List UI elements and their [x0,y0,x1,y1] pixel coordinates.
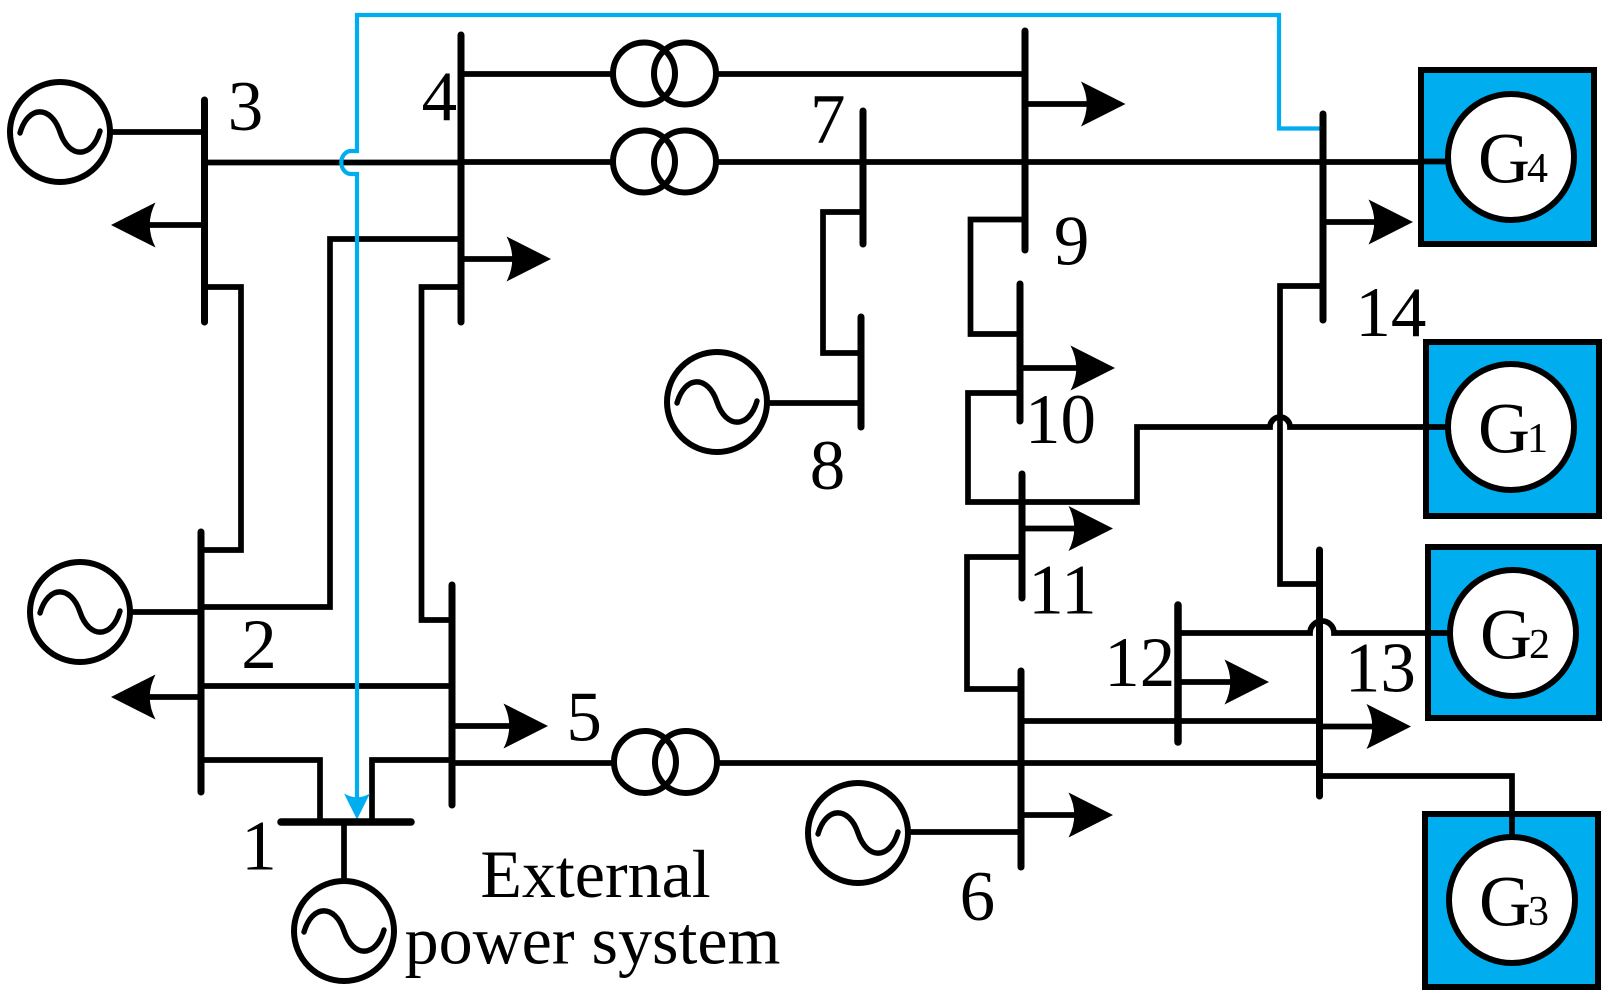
wire: link 10-11 and line bus 11 to G1 with hop over 14-13 link [968,393,1447,502]
generator at bus 2 [30,562,130,662]
svg-text:11: 11 [1028,552,1096,630]
wire: bus 13 to G3 [1320,776,1513,840]
wire: load arrow line bus 14 [1323,219,1407,225]
svg-text:power system: power system [405,903,781,979]
wire: line 6-12-13 [1021,718,1316,724]
bus 2 [198,532,205,792]
bus 7 [860,111,867,244]
svg-text:4: 4 [1527,146,1548,192]
wire stub into G4 [1419,159,1452,165]
wire: load arrow line bus 12 [1178,679,1263,685]
svg-text:8: 8 [810,427,846,505]
wire: generator to bus 6 [909,829,1021,835]
wire: load arrow line bus 13 [1320,724,1406,730]
svg-text:G: G [1480,595,1532,675]
wire: bus 4 to transformer (second) [461,159,616,165]
load arrow bus 5 [504,704,549,749]
bus 4 [458,35,465,322]
wire: line 3-2 [201,287,241,550]
wire: line 12 to G2 with hop over bus 13 [1178,621,1449,633]
load arrow bus 3 [111,203,156,248]
wire stub into G2 [1426,630,1454,636]
svg-text:G: G [1479,862,1531,942]
svg-text:5: 5 [566,679,602,757]
bus 6 [1018,671,1025,867]
wire: line 2-1 [201,760,320,822]
wire: load arrow line bus 11 [1022,526,1107,532]
load arrow bus 9 [1081,82,1126,127]
wire: link 9-10 [971,220,1026,335]
load arrow bus 4 [507,237,552,282]
wire: load arrow line bus 6 [1021,812,1107,818]
wire: line 5-1 [372,760,452,822]
svg-text:6: 6 [960,858,996,936]
wire: bus 1 to generator [341,822,347,880]
svg-text:1: 1 [1527,416,1548,462]
wire: transformer to G4 through buses 7 9 14 [713,159,1448,165]
svg-text:13: 13 [1345,630,1416,708]
bus 13 [1316,550,1323,796]
bus 5 [449,585,456,805]
transformer 5-6 [614,731,717,793]
generator at bus 3 [10,82,110,182]
load arrow bus 2 [111,675,156,720]
svg-text:12: 12 [1104,624,1175,702]
wire stub into G3 [1509,812,1515,841]
wire: load arrow line bus 4 [461,256,545,262]
wire: link 11-6 [967,557,1022,689]
transformer 4-7 [613,131,716,193]
svg-text:G: G [1478,389,1530,469]
wire: link 7-8 [823,212,863,353]
wire: line 4-5 [422,287,462,620]
bus 8 [858,317,865,427]
generator at bus 1 [294,881,394,981]
generator at bus 8 [667,352,767,452]
svg-text:3: 3 [1528,889,1549,935]
transformer 4-9 [613,43,716,105]
svg-text:14: 14 [1355,274,1426,352]
bus 14 [1320,114,1327,320]
wire: load arrow line bus 3 [117,222,205,228]
blue arrowhead into bus 1 [344,794,370,820]
wire: generator to bus 2 [80,609,201,615]
bus 3 [201,100,208,322]
svg-text:9: 9 [1054,203,1090,281]
load arrow bus 12 [1225,660,1270,705]
bus 11 [1019,474,1026,598]
wire: bus 5 to transformer 5-6 [452,760,614,766]
load arrow bus 6 [1069,793,1114,838]
bus 12 [1174,605,1182,742]
wire: generator to bus 3 [58,129,205,135]
svg-text:1: 1 [241,808,277,886]
load arrow bus 11 [1069,506,1114,551]
wire: transformer 4-9 to bus 9 [713,71,1025,77]
wire: load arrow line bus 9 [1025,101,1119,107]
svg-text:10: 10 [1025,381,1096,459]
load arrow bus 10 [1071,346,1116,391]
wire: bus 4 to transformer 4-9 [461,71,616,77]
wire: load arrow line bus 10 [1020,365,1109,371]
wire: link 14-13 [1280,286,1323,584]
svg-text:4: 4 [422,58,458,136]
svg-text:3: 3 [228,68,263,146]
bus 10 [1017,284,1024,421]
svg-text:G: G [1478,119,1530,199]
svg-text:2: 2 [241,606,276,684]
G1 generator box [1424,342,1599,516]
generator at bus 6 [808,783,908,883]
wire: load arrow line bus 2 [117,694,201,700]
svg-text:External: External [480,836,710,912]
svg-text:2: 2 [1529,622,1550,668]
bus 9 [1022,31,1029,250]
wire: generator to bus 8 [769,400,861,406]
wire: blue HVDC link from bus 14 to bus 1 with hop over line 3-4 [341,15,1320,806]
load arrow bus 14 [1369,200,1414,245]
G4 generator box [1419,70,1594,244]
G3 generator box [1425,812,1598,987]
wire: line 4-2 [201,239,461,607]
load arrow bus 13 [1367,704,1412,749]
svg-text:7: 7 [810,81,846,159]
G2 generator box [1426,547,1599,718]
bus 1 [281,818,411,826]
wire: line 2-5 [201,683,452,689]
wire stub into G1 [1424,424,1452,430]
wire: line 3-4 [205,160,462,166]
wire: transformer 5-6 to bus 13 through bus 6 [717,760,1316,766]
wire: load arrow line bus 5 [452,723,542,729]
